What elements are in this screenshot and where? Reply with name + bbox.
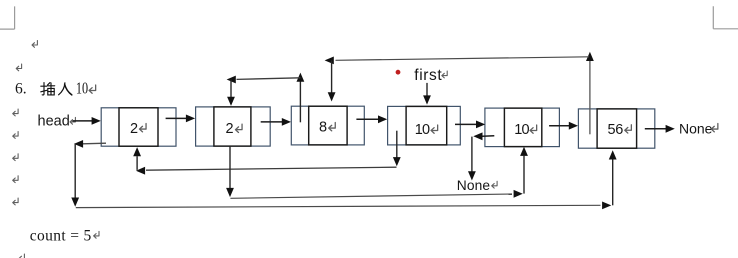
svg-text:first: first xyxy=(414,67,442,84)
svg-text:2: 2 xyxy=(130,121,138,137)
connector A left arrow from N1 cell xyxy=(74,140,106,148)
pilcrow after first xyxy=(442,71,447,78)
connector C up arrow into N1 xyxy=(133,147,141,170)
node N4 inner box xyxy=(406,106,447,144)
connector C down from N4 cell xyxy=(393,131,401,167)
chinese char ru (enter) xyxy=(59,83,72,95)
connector D left arrow from N5 cell xyxy=(473,132,494,140)
pilcrow after head xyxy=(70,117,75,124)
connector F down arrow into N3 xyxy=(328,60,336,101)
connector E stub up from N3 cell xyxy=(297,73,305,123)
connector E down arrow into N2 xyxy=(227,80,235,106)
node N5 outer box xyxy=(485,108,560,147)
margin pilcrow before head xyxy=(13,109,18,116)
svg-text:6.: 6. xyxy=(15,81,27,98)
node N6 outer box xyxy=(578,109,654,148)
node N3 pilcrow xyxy=(329,123,336,131)
pilcrow after count xyxy=(94,231,99,238)
svg-text:None: None xyxy=(679,121,713,137)
margin pilcrow row 4 xyxy=(13,154,18,161)
connector B down from N2 xyxy=(226,146,234,197)
connector F top wire xyxy=(336,57,590,61)
arrow head to N1 xyxy=(72,117,100,125)
pilcrow after None right xyxy=(711,124,718,132)
svg-text:10: 10 xyxy=(76,80,88,98)
margin pilcrow row 2 xyxy=(16,64,21,71)
node N5 inner box xyxy=(504,108,541,147)
margin pilcrow row 5 xyxy=(13,176,18,183)
node N6 inner box xyxy=(597,109,637,148)
connector G first down arrow into N4 xyxy=(423,83,431,105)
node N2 inner box xyxy=(214,107,251,146)
connector E top wire xyxy=(237,78,301,80)
node N2 outer box xyxy=(196,107,271,146)
svg-text:None: None xyxy=(457,178,491,193)
chinese char cha (insert) xyxy=(41,83,55,95)
node N4 pilcrow xyxy=(431,125,438,133)
svg-text:8: 8 xyxy=(319,120,327,136)
margin pilcrow row 1 xyxy=(32,41,37,48)
connector A bottom wire xyxy=(76,205,601,207)
connector A up arrow into N6 xyxy=(609,150,617,205)
connector B up arrow into N5 xyxy=(520,147,528,194)
node N1 outer box xyxy=(101,108,176,146)
svg-text:10: 10 xyxy=(415,122,430,138)
arrow N6 to None xyxy=(645,125,675,133)
svg-text:10: 10 xyxy=(514,122,529,138)
pilcrow after None bottom xyxy=(492,181,497,188)
connector C wire left xyxy=(146,167,397,170)
node N1 pilcrow xyxy=(139,124,146,132)
margin pilcrow row 3 xyxy=(13,132,18,139)
svg-text:count = 5: count = 5 xyxy=(30,228,92,245)
connector A right arrowhead xyxy=(602,202,611,210)
arrow N2 to N3 xyxy=(261,118,291,126)
node N3 inner box xyxy=(309,106,347,145)
top-left margin corner mark xyxy=(0,6,15,29)
svg-text:56: 56 xyxy=(608,122,624,138)
margin pilcrow bottom xyxy=(19,254,24,258)
arrow N3 to N4 xyxy=(356,115,387,123)
connector B bottom wire xyxy=(230,194,512,198)
connector E left arrowhead xyxy=(227,76,236,84)
margin pilcrow row 6 xyxy=(13,198,18,205)
node N4 outer box xyxy=(388,106,461,144)
arrow N4 to N5 xyxy=(455,121,485,129)
node N6 pilcrow xyxy=(625,125,632,133)
connector F stub up from N6 cell xyxy=(586,52,594,135)
top-right margin corner mark xyxy=(713,6,738,29)
node N3 outer box xyxy=(291,106,364,145)
node N1 inner box xyxy=(119,108,158,146)
connector D down arrow to None xyxy=(468,137,476,181)
node N2 pilcrow xyxy=(235,124,242,132)
connector A down wire xyxy=(71,144,79,207)
arrow N1 to N2 xyxy=(166,115,196,123)
connector C left arrowhead xyxy=(136,167,145,175)
title pilcrow xyxy=(89,85,96,93)
connector F left arrowhead xyxy=(325,57,334,65)
node N5 pilcrow xyxy=(530,125,537,133)
svg-text:2: 2 xyxy=(226,121,234,137)
arrow N5 to N6 xyxy=(549,122,578,130)
red bullet xyxy=(396,70,401,75)
connector B right arrowhead xyxy=(514,190,523,198)
svg-text:head: head xyxy=(38,113,70,129)
